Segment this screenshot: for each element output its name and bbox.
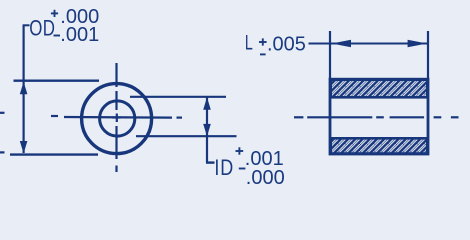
L plus sign [259, 38, 267, 45]
OD plus sign [51, 10, 58, 17]
right extension line of section view [427, 31, 429, 80]
svg-text:L: L [245, 31, 253, 54]
edge dash left lower [0, 151, 5, 153]
svg-text:ID: ID [214, 156, 234, 180]
top tangent extension line (OD) [14, 79, 100, 81]
OD minus sign [54, 35, 61, 37]
outer circle of spacer (OD), front view [82, 84, 152, 154]
L dimension line [331, 43, 427, 45]
ID dimension line vertical [206, 97, 208, 162]
svg-text:.005: .005 [267, 34, 306, 56]
section view outline rectangle [330, 79, 428, 154]
left extension line of section view [329, 31, 331, 80]
horizontal centerline of front view [51, 116, 182, 118]
top hatched wall band of section view [331, 80, 428, 98]
inner circle of spacer (ID bore), front view [100, 101, 135, 136]
OD leader bracket tick [23, 24, 30, 26]
svg-text:.000: .000 [246, 167, 285, 189]
ID arrowhead down [203, 124, 211, 136]
bottom hatched wall band of section view [331, 138, 428, 153]
vertical centerline of front view [115, 63, 118, 172]
OD arrowhead down [20, 141, 28, 153]
ID leader bracket tick [206, 161, 215, 163]
ID plus sign [236, 147, 244, 154]
L leader line [309, 43, 331, 45]
L minus sign [260, 53, 266, 55]
svg-text:.001: .001 [60, 24, 99, 46]
ID minus sign [239, 168, 246, 170]
L arrowhead right [408, 40, 427, 47]
L arrowhead left [332, 40, 351, 47]
OD arrowhead up [20, 82, 28, 94]
ID bottom extension line [136, 135, 237, 137]
svg-text:OD: OD [29, 16, 55, 41]
horizontal centerline of section view [294, 116, 459, 118]
ID arrowhead up [203, 97, 211, 110]
ID top extension line [130, 96, 226, 98]
edge dash left upper [0, 112, 5, 114]
bottom tangent extension line (OD) [10, 153, 98, 155]
OD dimension line vertical [23, 25, 25, 153]
